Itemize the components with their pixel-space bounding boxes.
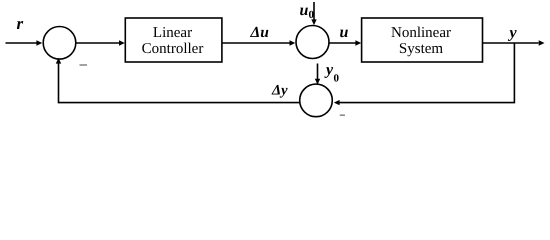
svg-text:u: u xyxy=(300,2,309,19)
arrowhead feedback into S1 xyxy=(56,58,61,64)
wire S1 to Linear Controller xyxy=(76,42,119,44)
svg-text:y: y xyxy=(324,62,334,79)
block Nonlinear System xyxy=(362,18,483,62)
arrowhead y0 into S3 xyxy=(315,79,320,85)
wire feedback S3 to S1 xyxy=(59,64,300,103)
arrowhead into S2 xyxy=(290,40,296,45)
wire input r xyxy=(6,42,37,44)
minus sign at S3 xyxy=(340,114,345,116)
svg-text:y: y xyxy=(508,24,518,41)
svg-text:r: r xyxy=(17,14,24,33)
svg-text:0: 0 xyxy=(334,72,340,84)
wire feedback branch down and left xyxy=(340,43,515,103)
svg-text:Nonlinear: Nonlinear xyxy=(391,25,451,41)
summing junction S3 xyxy=(300,84,333,117)
svg-text:Δy: Δy xyxy=(271,83,288,99)
arrowhead into Nonlinear System xyxy=(355,40,361,45)
arrowhead into summing junction S3 xyxy=(334,100,340,105)
wire u0 into S2 xyxy=(313,2,315,20)
arrowhead output y xyxy=(539,40,545,45)
svg-text:Controller: Controller xyxy=(142,41,204,57)
block Linear Controller xyxy=(125,18,222,62)
svg-text:u: u xyxy=(340,24,349,41)
wire y0 into S3 xyxy=(317,64,319,80)
arrowhead u0 into S2 xyxy=(311,19,316,25)
wire S2 to Nonlinear System xyxy=(330,42,356,44)
arrowhead into Linear Controller xyxy=(119,40,125,45)
summing junction S1 xyxy=(43,27,76,60)
summing junction S2 xyxy=(296,26,329,59)
wire output y xyxy=(483,42,539,44)
minus sign at S1 xyxy=(80,64,88,66)
svg-text:Linear: Linear xyxy=(153,25,192,41)
wire Linear Controller to summing junction S2 xyxy=(222,42,290,44)
svg-text:Δu: Δu xyxy=(250,24,270,41)
arrowhead into summing junction S1 xyxy=(36,40,42,45)
svg-text:System: System xyxy=(399,41,444,57)
